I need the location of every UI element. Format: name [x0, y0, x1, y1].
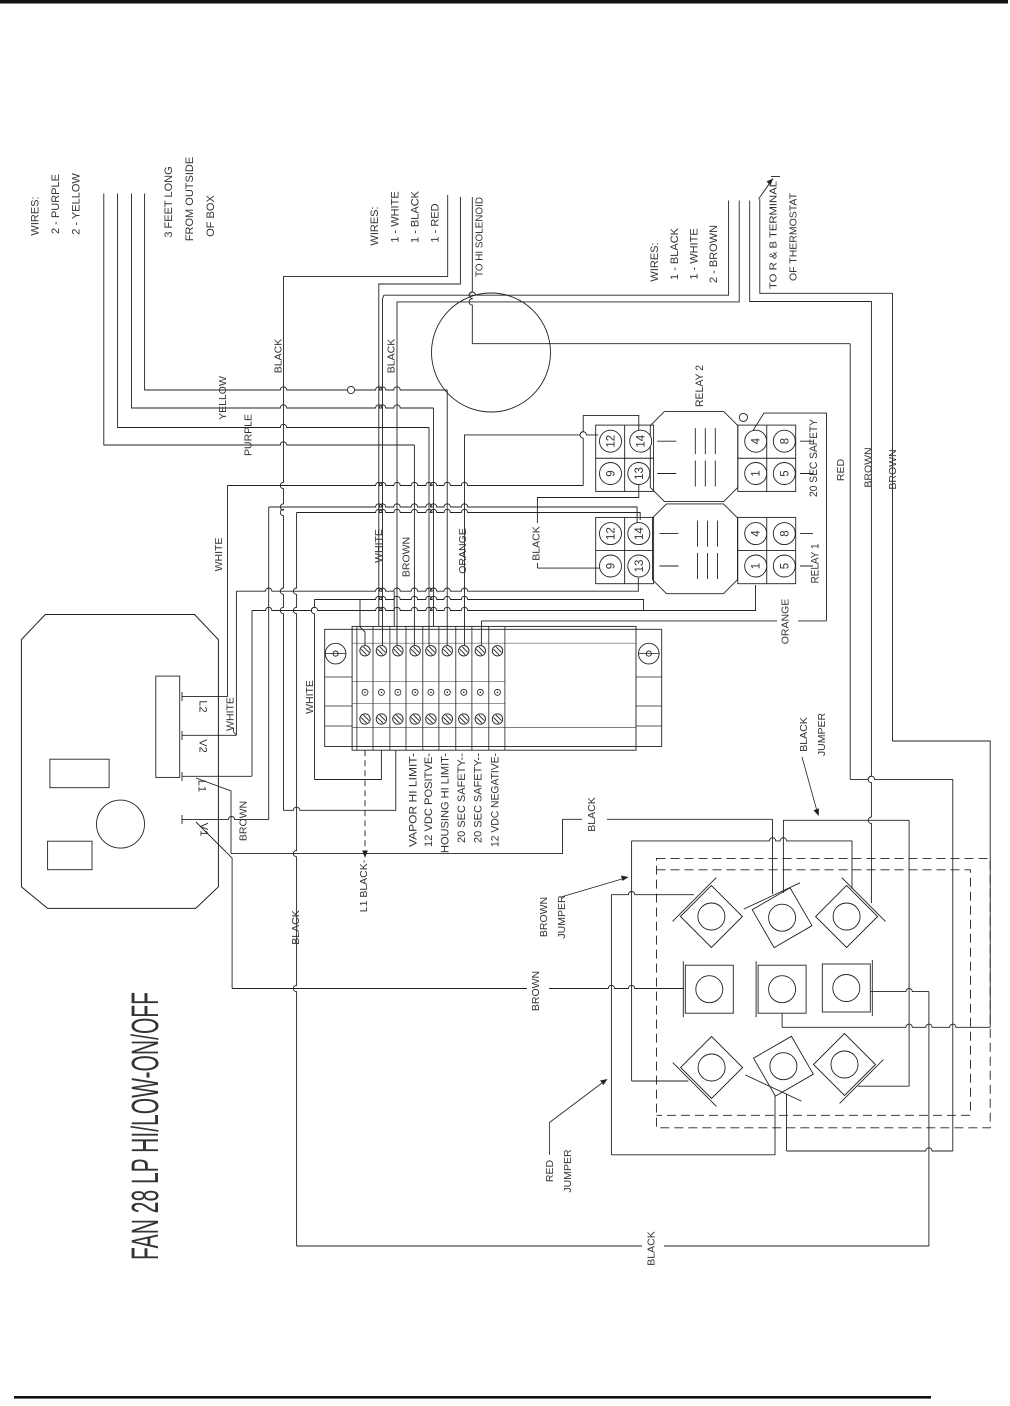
svg-text:WIRES:: WIRES:: [30, 196, 42, 235]
label HOUSING HI LIMIT: [440, 753, 452, 853]
wire bottom black run y1246: [297, 1245, 929, 1247]
label WHITE (strip drop): [304, 680, 316, 714]
relay U2 pin 14: [630, 430, 652, 452]
svg-text:RED: RED: [835, 458, 847, 481]
relay U1 pin 1: [745, 555, 767, 577]
label VAPOR HI LIMIT: [408, 753, 420, 847]
svg-text:BLACK: BLACK: [646, 1231, 658, 1265]
terminal row3 diamond2: [745, 1036, 813, 1101]
wire L1 bus y610.5 to relay1 pin1: [252, 585, 756, 611]
svg-text:1 - BLACK: 1 - BLACK: [410, 190, 422, 243]
terminal strip middle sensor row: [362, 689, 501, 695]
svg-text:1 - RED: 1 - RED: [430, 203, 442, 242]
relay U1 pin 8: [773, 523, 795, 545]
wire red over y779.4 and down x952.8: [850, 776, 953, 1151]
label BLACK JUMPER: [798, 712, 828, 756]
ignition module box outline: [21, 615, 218, 909]
wire thermostat black: down x728.6, left y295.2, down x383.8 to strip col2: [384, 201, 729, 296]
svg-text:BLACK: BLACK: [798, 717, 810, 751]
svg-text:4: 4: [751, 530, 763, 537]
wire L2 bus y485.5 to relay2: [228, 482, 584, 485]
svg-text:20 SEC SAFETY--: 20 SEC SAFETY--: [473, 753, 485, 843]
relay U1 pin 14: [628, 523, 650, 545]
svg-text:1: 1: [751, 470, 763, 476]
relay U1 pin 13: [628, 555, 650, 577]
svg-text:20 SEC SAFETY: 20 SEC SAFETY: [808, 418, 820, 497]
dashed box outer: [657, 858, 991, 1127]
terminal strip inner horizontal lines: [352, 643, 636, 727]
svg-text:JUMPER: JUMPER: [556, 895, 568, 939]
svg-text:9: 9: [606, 470, 618, 476]
label 20 SEC SAFETY-: [456, 753, 468, 843]
relay U2 left terminal block: [596, 425, 654, 491]
ignition module tall rectangle: [156, 676, 180, 777]
wire bus3 y512.5 from x296.6 to relay1: [297, 509, 641, 520]
wire long vertical x296.6 down to bottom black wire: [293, 513, 296, 1247]
wire L2 up x227.5 to y485.5: [227, 486, 229, 697]
svg-text:BROWN: BROWN: [238, 801, 250, 841]
svg-text:OF BOX: OF BOX: [205, 195, 217, 237]
wire brown jumper row1-d3 to row3-d1: [632, 838, 852, 1081]
label RELAY 1: [810, 544, 822, 584]
wire yellow-1: [145, 194, 448, 391]
terminal row1 diamond1: [673, 878, 743, 948]
svg-text:JUMPER: JUMPER: [562, 1149, 574, 1193]
svg-text:JUMPER: JUMPER: [816, 712, 828, 756]
relay U2 pin 9: [600, 463, 622, 485]
wire orange strip col7 riser: [465, 432, 599, 646]
svg-text:BLACK: BLACK: [273, 339, 285, 373]
wire red jumper row1-d1 to row3-d2: [611, 892, 775, 1155]
relay U2 indicator circle: [739, 413, 747, 421]
svg-text:WHITE: WHITE: [225, 697, 237, 731]
terminal strip left cap divisions: [325, 677, 352, 726]
wire thermostat brown-b: down x749.7, right y301.5, down x871.1: [750, 201, 872, 904]
label BROWN JUMPER: [538, 895, 568, 939]
svg-text:4: 4: [751, 437, 763, 444]
wire orange bus y620.9 strip col8 to x826.5: [481, 621, 826, 646]
wire red: coil to right vertical: [472, 343, 850, 345]
relay U2 pin 8: [773, 430, 795, 452]
terminal row3 diamond3: [814, 1034, 884, 1104]
svg-text:TO HI SOLENOID: TO HI SOLENOID: [474, 197, 486, 277]
wire V1 up x268.7 to y507: [268, 507, 270, 820]
svg-text:OF THERMOSTAT: OF THERMOSTAT: [788, 192, 800, 281]
svg-text:9: 9: [606, 563, 618, 569]
svg-text:BROWN: BROWN: [538, 897, 550, 937]
leader brown jumper: [561, 876, 629, 898]
relay U2 pin 1: [745, 463, 767, 485]
svg-text:1: 1: [751, 563, 763, 569]
border top bar: [0, 0, 1008, 4]
dashed box inner (top right bottom): [657, 870, 971, 1116]
wire black jumper row1-d2 to row3-d3: [783, 820, 909, 1086]
border bottom bar: [14, 1396, 931, 1399]
svg-text:BROWN: BROWN: [863, 447, 875, 487]
wire solenoid black: down at x447.7 left at y276.6 down at x283.5: [280, 195, 447, 810]
wire L2 stub: [182, 692, 228, 701]
wire L1 up x252 to y610.5: [251, 611, 253, 777]
label WIRES: 1-BLACK 1-WHITE 2-BROWN: [649, 225, 720, 283]
label BROWN (L1 drop): [238, 801, 250, 841]
wire yellow-1 riser to col6: [446, 390, 448, 645]
title FAN 28 LP HI/LOW-ON/OFF: [125, 992, 167, 1260]
wire purple-2 (outermost): [104, 194, 415, 446]
wire thermostat brown-a: down x759.8, right y293.3, down x892.5: [760, 199, 893, 741]
terminal row2 square3: [822, 960, 872, 1016]
wire purple-1 riser to col5: [428, 428, 430, 646]
terminal L1 label: [196, 780, 208, 792]
svg-text:V2: V2: [197, 739, 209, 752]
wire L2 riser x583.2 and over to relay2 pin14: [580, 415, 639, 485]
terminal row3 diamond1: [673, 1037, 743, 1107]
relay U2 pin 5: [773, 463, 795, 485]
label L1 BLACK: [358, 859, 370, 912]
svg-text:BLACK: BLACK: [531, 526, 543, 560]
relay U2 pin 4: [745, 430, 767, 452]
terminal strip top screw row: [360, 646, 503, 656]
wire red down x850.2: [849, 344, 851, 780]
svg-text:RELAY 2: RELAY 2: [694, 365, 706, 407]
svg-text:1 - WHITE: 1 - WHITE: [689, 228, 701, 279]
wire thermostat black vertical to col2 screw: [383, 295, 384, 645]
terminal strip left end screw: [325, 643, 346, 664]
terminal V1 label: [198, 823, 210, 836]
relay U1 body: [653, 504, 738, 594]
label BLACK (thermostat wire): [386, 339, 398, 373]
svg-text:HOUSING HI LIMIT-: HOUSING HI LIMIT-: [440, 753, 452, 853]
wire V1 bus y507 to relay1 pin14: [269, 504, 637, 526]
svg-text:WHITE: WHITE: [213, 538, 225, 572]
svg-text:2 - BROWN: 2 - BROWN: [708, 225, 720, 283]
terminal strip right end screw: [639, 643, 660, 664]
svg-text:BLACK: BLACK: [290, 910, 302, 944]
terminal L2 label: [197, 700, 209, 712]
svg-text:12 VDC POSITVE-: 12 VDC POSITVE-: [423, 753, 435, 847]
wire black lower run y853.6: [231, 819, 563, 853]
svg-text:RELAY 1: RELAY 1: [810, 544, 822, 584]
svg-text:BROWN: BROWN: [887, 449, 899, 489]
terminal strip column dividers: [357, 626, 505, 750]
svg-text:14: 14: [636, 434, 648, 447]
label 12 VDC POSITVE: [423, 753, 435, 847]
arrow to thermostat: [759, 177, 781, 200]
wire black upper run y819.3 to drop x772.5: [563, 819, 773, 894]
relay U2 right terminal block: [738, 425, 796, 491]
svg-text:2 - YELLOW: 2 - YELLOW: [71, 173, 83, 235]
svg-text:8: 8: [779, 530, 791, 536]
wire red bottom to row3-d2: [787, 1094, 953, 1151]
relay U1 left terminal block: [596, 517, 654, 583]
svg-text:1 - BLACK: 1 - BLACK: [669, 227, 681, 280]
svg-text:13: 13: [634, 560, 646, 573]
label WIRES: 1-WHITE 1-BLACK 1-RED: [369, 190, 442, 245]
label WHITE (L2 wire): [213, 538, 225, 572]
label WHITE with tick (V2/L2 pair): [225, 697, 237, 735]
svg-text:WIRES:: WIRES:: [369, 206, 381, 245]
svg-text:12: 12: [606, 435, 618, 448]
wire thermostat white: down x739.2, left y301.9, down x397 to strip col3: [397, 201, 739, 646]
svg-text:FAN 28 LP HI/LOW-ON/OFF: FAN 28 LP HI/LOW-ON/OFF: [125, 992, 167, 1260]
dashed line L1 BLACK: [362, 750, 368, 858]
relay U2 pin 12: [600, 430, 622, 452]
svg-text:13: 13: [634, 467, 646, 480]
label RELAY 2: [694, 365, 706, 407]
relay U1 pin 5: [773, 555, 795, 577]
label TO R & B TERMINAL OF THERMOSTAT: [768, 181, 800, 289]
svg-text:PURPLE: PURPLE: [243, 414, 255, 456]
svg-text:5: 5: [779, 563, 791, 569]
wire solenoid red: down x472.3 into coil circle: [469, 197, 472, 344]
wire strip col1 riser: [360, 600, 365, 646]
svg-text:12: 12: [606, 527, 618, 540]
wire square3 right to bottom black run: [871, 988, 929, 1246]
svg-text:BROWN: BROWN: [401, 537, 413, 577]
svg-text:20 SEC SAFETY--: 20 SEC SAFETY--: [456, 753, 468, 843]
label TO HI SOLENOID: [474, 197, 486, 277]
label 20 SEC SAFETY--: [473, 753, 485, 843]
label BLACK (solenoid wire): [273, 339, 285, 373]
label BLACK (bottom run): [646, 1231, 658, 1265]
terminal row2 square2: [756, 961, 806, 1017]
wire brown y988.5 to square terminal: [232, 985, 684, 988]
svg-text:3 FEET LONG: 3 FEET LONG: [163, 166, 175, 237]
label BLACK (to terminal): [586, 797, 598, 831]
label BROWN (V1 wire): [530, 971, 542, 1011]
svg-text:1 - WHITE: 1 - WHITE: [390, 191, 402, 242]
terminal row1 diamond2: [744, 883, 812, 948]
svg-text:L2: L2: [197, 700, 209, 712]
wire purple-1: [118, 194, 429, 428]
label ORANGE (pin4 wire): [780, 599, 792, 645]
label RED JUMPER: [544, 1149, 574, 1193]
terminal strip body rect: [352, 626, 636, 750]
wire V1 diagonal down: [196, 822, 232, 989]
svg-text:14: 14: [634, 527, 646, 540]
svg-text:TO R & B TERMINAL: TO R & B TERMINAL: [768, 181, 780, 289]
label PURPLE: [243, 414, 255, 456]
svg-text:ORANGE: ORANGE: [457, 528, 469, 574]
wire purple-2 riser to col4: [413, 445, 415, 645]
svg-text:WIRES:: WIRES:: [649, 242, 661, 281]
svg-text:12 VDC NEGATIVE-: 12 VDC NEGATIVE-: [490, 753, 502, 847]
ignition module small rectangle: [48, 841, 92, 870]
ignition module mid rectangle: [50, 759, 109, 788]
svg-text:8: 8: [779, 438, 791, 444]
wire L1 diagonal to brown drop: [196, 778, 231, 854]
relay U1 pin 4: [745, 523, 767, 545]
relay U1 side ticks: [800, 534, 813, 566]
label 3 FEET LONG FROM OUTSIDE OF BOX: [163, 157, 217, 241]
wire V2 stub: [182, 731, 236, 740]
svg-text:FROM OUTSIDE: FROM OUTSIDE: [184, 157, 196, 241]
wire V1 stub: [182, 815, 269, 824]
label WHITE (riser pair): [373, 529, 385, 563]
terminal strip outer rect: [325, 629, 662, 746]
terminal strip bottom screw row: [360, 714, 503, 724]
terminal strip right cap divisions: [636, 677, 662, 726]
leader red jumper: [550, 1079, 608, 1155]
wire yellow-2 riser: [433, 408, 435, 626]
wire solenoid black lower: right at y810.3 up to strip col3 bottom: [284, 750, 396, 810]
terminal row2 square1: [683, 961, 733, 1017]
label BLACK (relay jumper): [531, 526, 543, 560]
wire brown2 relay area to square2 bottom: [782, 741, 990, 1027]
wire white bus y599.5: [315, 596, 644, 610]
relay U1 pin 9: [600, 555, 622, 577]
leader black jumper: [802, 757, 819, 816]
relay U2 pin 13: [628, 463, 650, 485]
wire white drop x314.5 to y779.5 and to col2 bottom: [311, 600, 381, 780]
wire L1 stub: [182, 772, 252, 781]
wire V2 bus y591.2 to relay1 pin13: [236, 578, 638, 591]
svg-text:YELLOW: YELLOW: [217, 376, 229, 420]
svg-text:L1 BLACK-: L1 BLACK-: [358, 859, 370, 912]
label 20 SEC SAFETY: [808, 418, 820, 497]
wire V2 up x236.4 to y591.2: [235, 591, 237, 735]
relay U1 right terminal block: [738, 517, 796, 583]
wire short riser col3 second: [393, 591, 395, 626]
label YELLOW: [217, 376, 229, 420]
label BROWN (wire 2): [887, 449, 899, 489]
relay U1 pin 12: [600, 523, 622, 545]
label BLACK (x296.6 wire): [290, 910, 302, 944]
relay U2 body: [650, 412, 738, 502]
label ORANGE (pin12 wire): [457, 528, 469, 574]
wire relay2 pin13 to relay1 pin9: [537, 485, 638, 568]
relay U2 side ticks: [800, 441, 813, 473]
svg-text:BLACK: BLACK: [386, 339, 398, 373]
svg-text:2 - PURPLE: 2 - PURPLE: [50, 174, 62, 234]
terminal V2 label: [197, 739, 209, 752]
ignition module circle: [97, 800, 145, 848]
terminal row1 diamond3: [816, 878, 886, 948]
label WIRES: 2-PURPLE 2-YELLOW: [30, 173, 83, 236]
hi solenoid coil circle: [432, 293, 551, 412]
label 12 VDC NEGATIVE: [490, 753, 502, 847]
svg-text:WHITE: WHITE: [373, 529, 385, 563]
svg-text:RED: RED: [544, 1159, 556, 1182]
label RED: [835, 458, 847, 481]
svg-text:5: 5: [779, 470, 791, 476]
svg-text:VAPOR HI LIMIT-: VAPOR HI LIMIT-: [408, 753, 420, 847]
svg-text:ORANGE: ORANGE: [780, 599, 792, 645]
node open circle on yellow wire: [347, 386, 354, 393]
svg-text:BLACK: BLACK: [586, 797, 598, 831]
wire solenoid white: down at x460.4 left at y284 down at x378.8: [379, 197, 461, 627]
wire yellow-2: [132, 194, 434, 409]
label BROWN (wire 1): [863, 447, 875, 487]
svg-text:WHITE: WHITE: [304, 680, 316, 714]
wire relay2 pin4 diagonal: [753, 413, 827, 621]
label BROWN (riser): [401, 537, 413, 577]
svg-text:BROWN: BROWN: [530, 971, 542, 1011]
